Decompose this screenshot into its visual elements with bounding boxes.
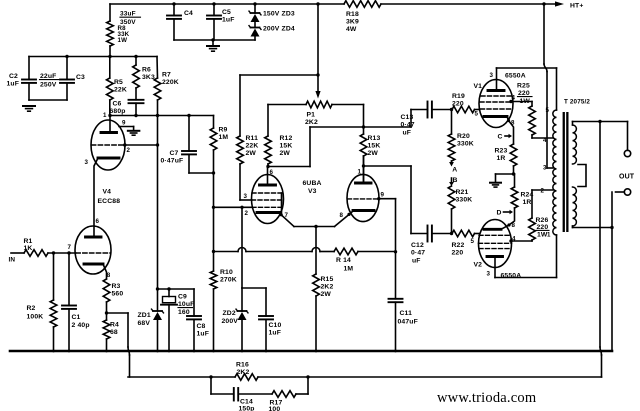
svg-text:680p: 680p [110, 108, 126, 115]
terminal OUT+ [624, 150, 630, 156]
svg-text:2K2: 2K2 [321, 284, 334, 291]
label R16 2K2 [236, 362, 249, 376]
tube V3 left envelope [252, 175, 284, 224]
capacitor C12 [411, 226, 452, 242]
svg-text:6: 6 [96, 218, 100, 225]
label V2 [474, 262, 483, 269]
watermark www.trioda.com [437, 390, 537, 406]
junction dots [108, 114, 190, 117]
cathode V1 [484, 117, 514, 145]
tap 1 [547, 232, 551, 239]
zener ZD1 [152, 309, 164, 351]
resistor R1 [24, 250, 48, 257]
wire [29, 99, 67, 101]
label C11 0.47uF [398, 310, 418, 326]
svg-text:C5: C5 [222, 9, 231, 16]
pin 7 [285, 212, 289, 219]
svg-text:OUT: OUT [619, 174, 635, 181]
label C4 [184, 10, 193, 17]
svg-text:220: 220 [537, 224, 549, 231]
svg-text:0·47: 0·47 [401, 122, 415, 129]
capacitor C3 [60, 57, 74, 101]
cathode V4 lower [84, 263, 103, 266]
label C10 1uF [269, 322, 282, 337]
label C12 0.47uF [411, 242, 425, 264]
wire SRPP column [94, 158, 98, 237]
svg-text:R15: R15 [321, 276, 334, 283]
capacitor C5 [207, 4, 221, 40]
wire [174, 38, 255, 41]
svg-text:150p: 150p [239, 406, 255, 411]
resistor R19 [452, 106, 480, 113]
label C14 150p [239, 399, 255, 411]
label OUT [619, 174, 635, 181]
svg-text:R25: R25 [517, 83, 530, 90]
svg-text:C13: C13 [401, 114, 414, 121]
svg-text:R19: R19 [452, 93, 465, 100]
resistor R14 [334, 248, 358, 255]
resistor R17 [272, 391, 296, 398]
svg-text:R7: R7 [162, 72, 171, 79]
resistor R12 [265, 105, 272, 167]
node IN [9, 257, 16, 264]
svg-text:R23: R23 [495, 148, 508, 155]
svg-text:V4: V4 [103, 189, 112, 196]
pin 4 [509, 236, 516, 243]
grid dashes V1 [480, 96, 512, 109]
svg-text:1R: 1R [523, 199, 532, 206]
resistor R25 [529, 102, 553, 139]
svg-text:220K: 220K [162, 79, 179, 86]
wire feedback [600, 122, 602, 378]
svg-text:ZD1: ZD1 [138, 312, 151, 319]
svg-text:2K2: 2K2 [305, 119, 318, 126]
svg-text:C9: C9 [178, 294, 187, 301]
resistor R3 [103, 279, 110, 313]
arrow C [498, 134, 513, 141]
label R3 560 [112, 283, 124, 298]
svg-text:C1: C1 [72, 314, 81, 321]
svg-text:7: 7 [68, 244, 72, 251]
svg-text:8: 8 [340, 212, 344, 219]
pin 1 lead and plate [101, 116, 117, 133]
cathode V3 right [353, 209, 374, 212]
svg-text:220: 220 [452, 101, 464, 108]
svg-text:R2: R2 [27, 305, 36, 312]
svg-text:C3: C3 [76, 74, 85, 81]
cathode V2 [484, 223, 511, 229]
svg-text:R12: R12 [280, 135, 293, 142]
junction dots bus [52, 350, 397, 353]
label V1 [474, 83, 483, 90]
resistor R21 [448, 186, 455, 234]
capacitor C2 [22, 57, 36, 101]
svg-text:10uF: 10uF [178, 301, 194, 308]
svg-text:1R: 1R [497, 155, 506, 162]
svg-text:C2: C2 [9, 73, 18, 80]
wire grid column [213, 173, 215, 271]
pin 5 [471, 238, 475, 245]
resistor R2 [50, 253, 57, 351]
svg-text:1uF: 1uF [269, 330, 282, 337]
svg-text:1M: 1M [344, 266, 354, 273]
svg-text:R9: R9 [219, 127, 228, 134]
svg-text:250V: 250V [40, 82, 57, 89]
g3 strap [280, 193, 283, 216]
svg-text:ZD2: ZD2 [223, 310, 236, 317]
label R21 330K [456, 189, 473, 204]
svg-text:4W: 4W [346, 26, 357, 33]
pin 3 wire [240, 199, 252, 201]
label 150V ZD3 [263, 11, 295, 18]
wire secondary top [573, 120, 628, 151]
svg-text:R10: R10 [220, 269, 233, 276]
label R1 1K [24, 238, 33, 252]
transformer core [563, 112, 569, 232]
svg-text:3: 3 [543, 165, 547, 172]
svg-text:22K: 22K [246, 143, 259, 150]
svg-text:6: 6 [270, 169, 274, 176]
resistor R13 [360, 105, 367, 184]
grid dashes V4 upper [92, 144, 125, 146]
wire plate node N2 [362, 164, 411, 233]
resistor R9 [210, 116, 217, 174]
wire [358, 250, 397, 253]
svg-text:A: A [452, 167, 457, 174]
pin 1 lead and plate [356, 156, 372, 183]
resistor R11 [237, 75, 244, 200]
svg-text:6550A: 6550A [505, 73, 526, 80]
svg-text:68V: 68V [138, 320, 151, 327]
pin 2 wire [123, 143, 159, 146]
label 6550A [501, 273, 522, 280]
label ZD2 200V [222, 310, 239, 325]
svg-text:C8: C8 [197, 323, 206, 330]
svg-text:R5: R5 [114, 79, 123, 86]
pin 8 lead [335, 211, 354, 227]
wire R14 line [212, 248, 334, 254]
svg-text:1uF: 1uF [7, 81, 20, 88]
svg-text:9: 9 [122, 120, 126, 127]
wire P1 supply [240, 73, 320, 76]
cathode V4 upper [98, 157, 119, 160]
label 6550A [505, 73, 526, 80]
node HT+ [570, 3, 583, 10]
wire ground bus [10, 350, 612, 353]
pin 8 [340, 212, 344, 219]
svg-text:R21: R21 [456, 189, 469, 196]
svg-text:2 40p: 2 40p [72, 322, 90, 329]
svg-text:33uF: 33uF [120, 11, 136, 18]
label C5 1uF [222, 9, 235, 24]
label C3 [76, 74, 85, 81]
svg-text:5: 5 [546, 107, 550, 114]
svg-text:uF: uF [403, 129, 412, 136]
wire cathode join [294, 225, 335, 228]
svg-text:8: 8 [107, 272, 111, 279]
svg-text:P1: P1 [307, 112, 316, 119]
tube V4 lower triode envelope [75, 226, 111, 274]
svg-text:15K: 15K [280, 143, 293, 150]
arrow A [449, 162, 454, 167]
svg-text:560: 560 [112, 291, 124, 298]
zener ZD2 [236, 288, 248, 351]
svg-text:100K: 100K [27, 314, 44, 321]
pin 9 wire [377, 197, 395, 299]
resistor R18 [344, 1, 381, 8]
wire HT drop [544, 4, 553, 168]
wire feedback drop [128, 313, 130, 377]
svg-text:R11: R11 [246, 135, 259, 142]
label R25 220 1W [517, 83, 532, 105]
label R6 3K3 [142, 67, 155, 82]
svg-text:8: 8 [511, 120, 515, 127]
svg-text:R3: R3 [112, 283, 121, 290]
node B [453, 177, 458, 184]
svg-text:1: 1 [358, 169, 362, 176]
resistor R7 [154, 57, 161, 116]
ground [23, 106, 35, 111]
ground [207, 40, 219, 51]
svg-text:3: 3 [85, 159, 89, 166]
svg-text:R18: R18 [346, 11, 359, 18]
svg-text:ECC88: ECC88 [98, 198, 121, 205]
svg-text:0·47uF: 0·47uF [161, 158, 184, 165]
resistor R24 [509, 174, 518, 225]
svg-text:1W: 1W [520, 98, 531, 105]
wire to grid [48, 251, 76, 254]
label C2 1uF [7, 73, 20, 88]
pin 9 [122, 120, 126, 127]
label R22 220 [452, 242, 465, 257]
pin 8 [107, 272, 111, 279]
pin 4 [512, 95, 516, 102]
svg-text:1: 1 [103, 112, 107, 119]
label R4 68 [110, 322, 119, 337]
pin 8 [512, 222, 516, 229]
potentiometer P1 [268, 101, 364, 108]
junction dots top rail [172, 2, 545, 5]
svg-text:C11: C11 [400, 310, 413, 317]
pin 1 [103, 112, 107, 119]
plate bar V4 lower [86, 236, 102, 239]
wire upper-left rail [29, 56, 157, 58]
capacitor C14 [234, 388, 238, 401]
svg-text:1M: 1M [219, 134, 229, 141]
pin 7 lead [281, 215, 294, 227]
plate V2 [487, 257, 503, 278]
svg-text:C10: C10 [269, 322, 282, 329]
wire input [11, 252, 24, 254]
tap 4 [543, 137, 547, 144]
pin 3 [487, 271, 491, 278]
wire feedback rail [128, 375, 602, 378]
svg-text:D: D [497, 210, 502, 217]
svg-text:4: 4 [512, 95, 516, 102]
wire C9 C8 header [158, 287, 195, 290]
label R8 33K 1W [118, 25, 130, 44]
arrow D [497, 210, 514, 217]
svg-text:C14: C14 [240, 399, 253, 406]
pin 9 [381, 192, 385, 199]
svg-text:2W: 2W [280, 150, 291, 157]
svg-text:5: 5 [475, 111, 479, 118]
svg-text:6UBA: 6UBA [303, 180, 322, 187]
svg-text:8: 8 [512, 222, 516, 229]
junction dots [65, 55, 137, 58]
wire grid rail [110, 115, 214, 117]
label R24 1R [521, 192, 534, 207]
label R9 1M [219, 127, 229, 142]
pin 6 lead and plate [260, 167, 276, 186]
cathode V3 left [257, 211, 280, 214]
wire C14 branch [211, 377, 308, 394]
svg-text:2W: 2W [321, 291, 332, 298]
label R20 330K [457, 133, 474, 148]
pin 3 [85, 159, 89, 166]
svg-text:22K: 22K [114, 87, 127, 94]
transformer T secondary upper [573, 125, 577, 164]
capacitor C11 [389, 299, 403, 351]
label V4 ECC88 [98, 189, 121, 206]
grid dash V3 right [348, 198, 379, 200]
label R11 22K 2W [246, 135, 259, 157]
svg-text:1K: 1K [24, 245, 33, 252]
svg-text:3: 3 [487, 271, 491, 278]
ground [490, 174, 501, 187]
label 33uF 350V [120, 11, 141, 27]
tube V2 envelope [479, 220, 512, 268]
resistor R15 [313, 227, 320, 352]
svg-text:200V: 200V [222, 318, 239, 325]
svg-text:150V ZD3: 150V ZD3 [263, 11, 295, 18]
label C1 240p [72, 314, 90, 329]
label T 2075/2 [564, 99, 590, 106]
pin 5 [475, 111, 479, 118]
svg-text:1uF: 1uF [222, 17, 235, 24]
svg-text:2W: 2W [246, 150, 257, 157]
label C9 10uF 160 [178, 294, 194, 316]
label C7 0.47uF [161, 150, 184, 165]
svg-text:C7: C7 [170, 150, 179, 157]
label 22uF 250V [40, 73, 59, 89]
tap stubs [0, 0, 1, 1]
label R18 3K9 4W [346, 11, 359, 33]
svg-text:2: 2 [127, 147, 131, 154]
label C8 1uF [197, 323, 210, 338]
svg-text:1: 1 [547, 232, 551, 239]
svg-text:0·47: 0·47 [411, 250, 425, 257]
capacitor C9 [161, 289, 177, 351]
transformer T secondary lower [573, 187, 577, 226]
tube V4 upper triode envelope [91, 120, 125, 170]
wire V2 plate to T1 [495, 235, 557, 278]
svg-text:1W: 1W [118, 37, 128, 44]
resistor R23 [510, 144, 517, 174]
terminal OUT- [624, 189, 630, 195]
label R2 100K [27, 305, 44, 321]
resistor R10 [210, 271, 217, 351]
svg-text:350V: 350V [120, 19, 136, 26]
tap 3 [543, 165, 547, 172]
svg-text:V1: V1 [474, 83, 483, 90]
capacitor C6 [129, 100, 144, 116]
capacitor C10 [259, 288, 273, 351]
svg-text:220: 220 [452, 250, 464, 257]
label R26 220 1W [536, 217, 550, 239]
secondary series link [578, 165, 586, 187]
resistor R8 [107, 4, 114, 57]
capacitor C4 [167, 4, 181, 40]
label R19 220 [452, 93, 465, 108]
svg-text:R20: R20 [457, 133, 470, 140]
capacitor C8 [187, 289, 201, 351]
resistor R4 [103, 313, 110, 351]
label 6U8A V3 [303, 180, 322, 195]
grid dashes V3 left [252, 193, 284, 207]
junction [212, 171, 215, 174]
wire secondary bottom [573, 226, 614, 229]
label R14 1M [336, 257, 353, 273]
resistor R5 [107, 57, 114, 116]
label C13 0.47uF [401, 114, 415, 136]
svg-text:2K2: 2K2 [237, 369, 250, 376]
svg-text:68: 68 [110, 329, 118, 336]
svg-text:R13: R13 [368, 135, 381, 142]
zener ZD3 [249, 4, 261, 28]
resistor R26 [511, 190, 553, 241]
resistor R6 [133, 57, 140, 100]
transformer T primary [553, 110, 557, 235]
label R7 220K [162, 72, 179, 87]
svg-text:100: 100 [269, 406, 281, 411]
pin 2 [245, 210, 249, 217]
wire HT+ top rail [110, 3, 556, 5]
pin 4 wire [509, 100, 532, 103]
junction R3 R4 [105, 311, 108, 314]
capacitor C1 [62, 253, 76, 351]
label R23 1R [495, 148, 508, 163]
label R12 15K 2W [280, 135, 293, 157]
pin 7 [68, 244, 72, 251]
tap 2 [541, 188, 545, 195]
wire P1 wiper [315, 4, 320, 99]
svg-text:R4: R4 [110, 322, 119, 329]
wire plate node N1 [266, 125, 411, 168]
svg-text:220: 220 [518, 90, 530, 97]
node A [452, 167, 457, 174]
svg-text:R 14: R 14 [336, 257, 351, 264]
svg-text:5: 5 [471, 238, 475, 245]
label R13 15K 2W [368, 135, 381, 157]
label R15 2K2 2W [321, 276, 334, 298]
pin 6 [270, 169, 274, 176]
svg-text:200V ZD4: 200V ZD4 [263, 26, 295, 33]
capacitor C7 [182, 116, 214, 174]
capacitor C13 [411, 102, 452, 128]
svg-text:160: 160 [178, 309, 190, 316]
svg-text:330K: 330K [457, 141, 474, 148]
grid dashes V4 lower [76, 252, 110, 254]
svg-text:C4: C4 [184, 10, 193, 17]
svg-text:www.trioda.com: www.trioda.com [437, 390, 537, 406]
tube V3 right envelope [347, 174, 379, 221]
svg-text:2W: 2W [368, 150, 379, 157]
svg-text:22uF: 22uF [40, 73, 56, 80]
svg-text:9: 9 [381, 192, 385, 199]
pin 3 [490, 72, 494, 79]
arrow HT+ [555, 1, 564, 6]
